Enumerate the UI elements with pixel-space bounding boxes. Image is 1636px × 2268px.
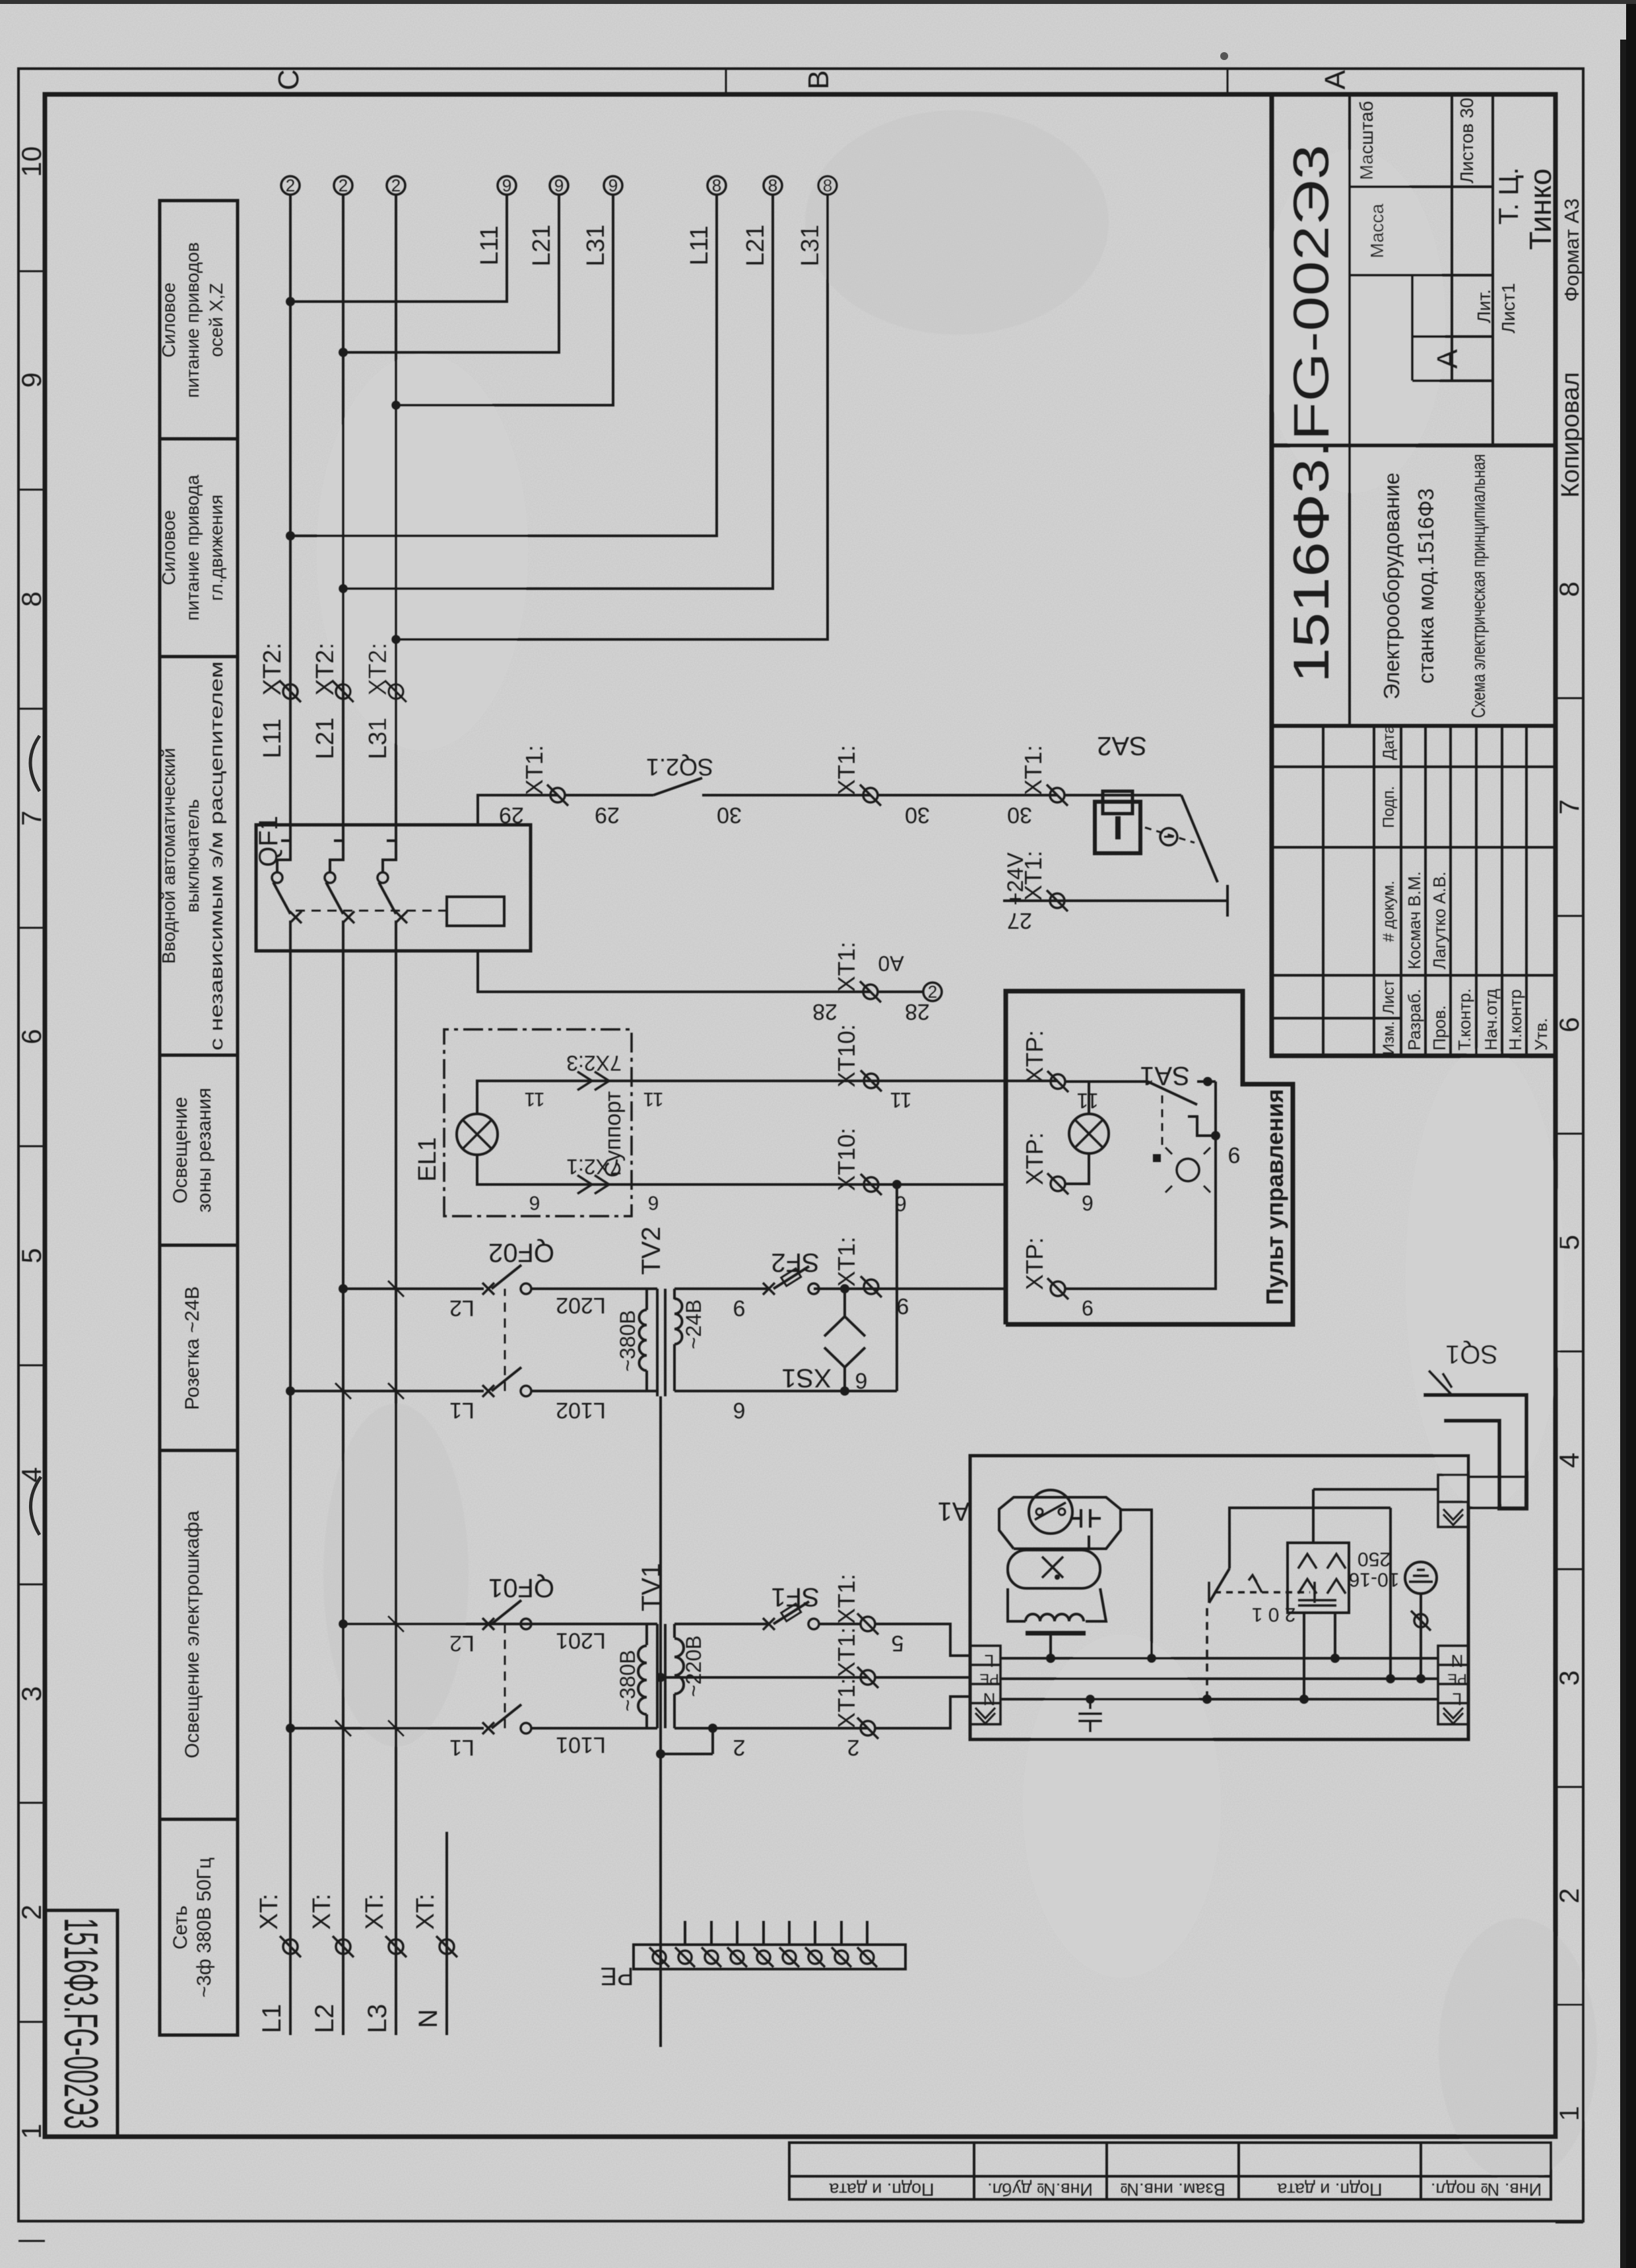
svg-text:5: 5 [892,1631,904,1656]
terminal XTP:9 [1047,1278,1068,1299]
svg-text:осей X,Z: осей X,Z [206,283,226,357]
wire socket PE [1313,1488,1438,1491]
switch SF1 [763,1618,775,1630]
svg-text:Листов 30: Листов 30 [1456,98,1477,183]
wire PE stub [788,1921,791,1945]
svg-text:Силовое: Силовое [158,282,179,358]
svg-text:2: 2 [847,1735,860,1760]
svg-text:XT1:: XT1: [833,745,860,795]
svg-text:9: 9 [897,1293,909,1318]
panel lamp HL [1069,1114,1109,1153]
svg-text:30: 30 [905,802,930,827]
svg-text:B: B [802,70,835,89]
sheet ref circle 9 L21 [550,176,568,195]
svg-text:8: 8 [16,591,47,606]
svg-text:Тинко: Тинко [1523,168,1557,249]
svg-text:9: 9 [1228,1142,1241,1167]
scan mark left upper [30,736,40,791]
svg-text:XT2:: XT2: [259,643,286,696]
svg-text:Утв.: Утв. [1531,1018,1551,1051]
svg-text:L2: L2 [449,1631,474,1656]
svg-text:Пульт управления: Пульт управления [1261,1089,1288,1305]
transformer TV1 core [656,1624,659,1728]
inventory margin strip cells [789,2143,1551,2199]
wire branch L11 axes [290,195,507,302]
svg-text:L2: L2 [310,2004,339,2034]
svg-text:А: А [1431,349,1464,369]
svg-text:# докум.: # докум. [1380,880,1398,942]
breaker QF1 box [256,825,531,951]
svg-text:L2: L2 [449,1295,474,1320]
PE bus bar [634,1945,905,1969]
node L2/QF01 junction [339,1619,348,1629]
switch SQ1 outline [1423,1395,1526,1508]
ground symbol A1 [1405,1562,1437,1594]
socket wires [1303,1613,1305,1699]
svg-text:XT1:: XT1: [833,942,860,992]
terminal XT: [280,1936,301,1957]
terminal XT1:29 [547,785,568,806]
svg-text:7X2:3: 7X2:3 [566,1051,622,1075]
svg-text:2: 2 [339,176,348,195]
svg-text:9: 9 [608,176,618,195]
svg-text:XT10:: XT10: [833,1024,860,1087]
dashed link SA2 [1145,827,1194,843]
scan speck [1220,52,1228,60]
svg-text:9: 9 [502,176,511,195]
terminal XT1:30b [1047,785,1068,806]
svg-text:Разраб.: Разраб. [1404,988,1424,1051]
breaker QF01 pole L2 [343,1623,484,1625]
wire 28 end [878,990,923,993]
svg-text:3: 3 [16,1686,47,1701]
node L1/QF01 junction [286,1724,295,1733]
wire branch L31 axes [396,195,613,405]
svg-text:10-16: 10-16 [1349,1569,1400,1590]
breaker QF1 pole 2 [342,921,344,951]
wire branch L31 main [396,195,828,639]
svg-text:питание привода: питание привода [182,474,203,621]
node branch L31 axes [391,401,401,410]
connector 7X2:3 [577,1072,609,1090]
svg-text:Освещение: Освещение [170,1097,191,1204]
svg-text:2: 2 [16,1904,47,1920]
svg-text:L1: L1 [449,1735,474,1760]
svg-text:Дата: Дата [1380,725,1398,760]
terminal PE bus [649,1947,669,1967]
sheet ref circle 2 L11 [281,176,300,195]
svg-text:9: 9 [554,176,564,195]
breaker QF1 pole 1 [289,921,292,951]
wire 11 lamp [477,1081,1058,1114]
terminal XT1:5 [857,1613,878,1635]
sheet ref circle 9 L31 [604,176,622,195]
svg-text:11: 11 [890,1088,911,1112]
A1 bottom arrows [1443,1708,1463,1724]
node branch L11 main [286,531,295,540]
transformer TV2 primary winding [647,1390,657,1392]
svg-text:XT1:: XT1: [833,1678,860,1728]
wire TV2 sec bottom [674,1390,897,1392]
svg-text:Подп. и дата: Подп. и дата [1276,2180,1382,2199]
transformer TV2 core [656,1289,659,1396]
sheet ref circle 8 L31 [818,176,837,195]
terminal XT2: L11 [280,681,301,702]
zone ticks top margin [18,271,45,2241]
svg-text:QF01: QF01 [488,1573,554,1602]
sheet ref circle 2 wire28 [923,983,942,1001]
svg-text:Формат А3: Формат А3 [1560,199,1583,302]
svg-text:5: 5 [16,1248,47,1263]
svg-text:Вводной автоматический: Вводной автоматический [158,748,179,963]
svg-text:Копировал: Копировал [1557,372,1585,498]
node L1/QF02 junction [286,1386,295,1396]
svg-text:2 0 1: 2 0 1 [1252,1604,1296,1625]
svg-text:TV2: TV2 [637,1227,666,1275]
starter capacitor [1072,1509,1101,1528]
wire PE stub [762,1921,765,1945]
terminal XT: [385,1936,407,1957]
QF02 trip link dashed [504,1289,506,1391]
A1 column L [1000,1657,1438,1660]
wire 27 [1003,899,1227,902]
wire QF01 L1 drop [290,1727,484,1730]
breaker QF02 pole L2 [482,1283,494,1295]
svg-text:Лагутко А.В.: Лагутко А.В. [1429,872,1449,969]
terminal XT2: L21 [333,681,354,702]
terminal ground A1 [1411,1611,1431,1631]
svg-text:L202: L202 [556,1293,606,1318]
paper blotches [317,150,1564,1978]
svg-text:~3ф 380В 50Гц: ~3ф 380В 50Гц [193,1858,215,1997]
svg-text:6: 6 [895,1192,907,1215]
svg-text:XT:: XT: [361,1894,389,1930]
svg-text:Инв.№ дубл.: Инв.№ дубл. [987,2180,1093,2199]
wire TV1 secondary 5 [674,1623,769,1625]
title left header row [1380,725,1398,1055]
svg-text:гл.движения: гл.движения [206,494,226,600]
svg-text:5: 5 [1554,1235,1585,1250]
transformer TV1 primary winding [647,1727,657,1730]
control panel box [1006,991,1293,1324]
switch SA1 contact 2 dashed lamp [1162,1094,1163,1145]
svg-text:Лист1: Лист1 [1498,283,1519,333]
svg-text:QF02: QF02 [488,1238,554,1267]
breaker QF1 pole 3 [395,921,397,951]
svg-text:A1: A1 [938,1497,970,1526]
svg-text:N: N [414,2009,443,2028]
switch SQ2.1 [653,778,702,795]
svg-text:Розетка ~24В: Розетка ~24В [181,1286,203,1410]
terminal XT1:9 [861,1276,882,1297]
svg-text:L31: L31 [582,224,610,266]
wire branch L11 main [290,195,717,536]
svg-text:~24В: ~24В [682,1299,705,1349]
svg-text:11: 11 [643,1088,663,1110]
wire TV1 secondary 2 [674,1727,868,1730]
svg-text:9: 9 [1082,1296,1094,1320]
svg-text:XT2:: XT2: [311,643,339,696]
svg-text:Лит.: Лит. [1474,289,1494,323]
terminal PE bus [754,1947,773,1967]
svg-text:6: 6 [648,1192,659,1214]
svg-text:9: 9 [16,372,47,387]
node A1 L col [1046,1654,1055,1663]
wire bus L1 [289,951,292,2035]
svg-text:1516Ф3.FG-002Э3: 1516Ф3.FG-002Э3 [1284,145,1340,683]
wire 6 lamp [477,1155,1006,1184]
svg-text:6: 6 [1082,1191,1094,1215]
node branch L11 axes [286,297,295,306]
scan mark left lower [30,1477,41,1535]
switch SA2 blade [1181,795,1218,882]
wire QF02 L2 drop [343,1287,484,1290]
zone numbers top margin [16,146,47,2139]
wire TV2 sec top [674,1287,769,1290]
svg-text:27: 27 [1007,908,1032,933]
terminal PE bus [832,1947,851,1967]
svg-text:Схема электрическая принципиал: Схема электрическая принципиальная [1468,454,1489,718]
svg-text:~380В: ~380В [616,1310,639,1371]
zone numbers bottom margin [1554,581,1585,2121]
wire bus L3 [395,951,397,2035]
wire PE stub [814,1921,816,1945]
svg-text:XT:: XT: [412,1894,440,1930]
svg-text:L31: L31 [364,717,392,759]
svg-text:SA1: SA1 [1140,1061,1190,1090]
QF1 trip bar dashed [296,910,447,912]
svg-text:Сеть: Сеть [170,1906,191,1950]
svg-text:9: 9 [733,1295,746,1320]
wire PE to switch [1389,1508,1392,1679]
svg-text:L102: L102 [556,1398,606,1423]
svg-text:6: 6 [16,1029,47,1044]
ground link TV1 secondary [711,1728,714,1754]
svg-text:L3: L3 [363,2004,392,2034]
zone letters right margin [273,69,1352,90]
terminal XT1:28 [860,981,881,1002]
svg-text:6: 6 [855,1368,868,1393]
zone ticks bottom margin [1555,698,1583,2222]
connector 7X2:1 [577,1175,609,1194]
svg-text:L31: L31 [797,224,824,266]
svg-text:1516Ф3.FG-002Э3: 1516Ф3.FG-002Э3 [54,1918,107,2129]
svg-text:1: 1 [16,2123,47,2139]
svg-text:SQ1: SQ1 [1445,1340,1498,1369]
terminal XT10:11 [861,1070,882,1091]
ground line PE [659,1396,662,2047]
terminal XT1:2 [857,1718,878,1739]
svg-text:Силовое: Силовое [158,510,179,585]
svg-text:Взам. инв.№: Взам. инв.№ [1120,2180,1226,2199]
A1 bottom terminal block [1438,1646,1468,1724]
svg-text:PE: PE [601,1962,634,1990]
function header table [160,201,238,2035]
svg-text:Н.контр: Н.контр [1505,989,1525,1051]
svg-text:XT1:: XT1: [1020,745,1047,795]
svg-text:XTP:: XTP: [1021,1030,1048,1083]
svg-text:Т.контр.: Т.контр. [1455,988,1474,1051]
svg-text:XT1:: XT1: [833,1574,860,1624]
svg-text:6: 6 [733,1398,746,1423]
svg-text:L21: L21 [528,224,556,266]
svg-text:SA2: SA2 [1097,731,1147,760]
svg-text:4: 4 [16,1467,47,1482]
svg-text:4: 4 [1554,1452,1585,1468]
breaker QF02 pole L1 [482,1385,494,1397]
wire PE stub [736,1921,738,1945]
svg-text:250: 250 [1358,1548,1391,1570]
unit A1 box [970,1456,1468,1739]
wire 29-30 [565,794,653,796]
svg-text:Пров.: Пров. [1429,1005,1449,1051]
terminal XT2: L31 [385,681,407,702]
wire bus N [445,1832,448,2035]
switch 201 blade [1209,1569,1229,1603]
switch SQ1 blade [1429,1371,1452,1395]
doc number box top-left (rotated 180) [45,1910,117,2137]
wire PE from ground line [661,1676,868,1679]
svg-text:Освещение электрошкафа: Освещение электрошкафа [181,1510,203,1759]
wire 29 from QF1 [478,795,558,825]
node branch L21 main [339,584,348,593]
terminal PE bus [857,1947,877,1967]
svg-text:L21: L21 [311,717,339,759]
terminal PE bus [779,1947,799,1967]
sheet ref circle 8 L11 [707,176,726,195]
A1 top terminal block [970,1646,1000,1724]
node branch L31 main [391,635,401,644]
svg-text:11: 11 [524,1088,544,1110]
fluorescent lamp [1008,1550,1100,1588]
node branch L21 axes [339,348,348,357]
svg-text:7X2:1: 7X2:1 [566,1155,622,1179]
socket XS1 [840,1284,849,1293]
svg-text:A: A [1319,70,1352,90]
A1 column PE [1000,1677,1438,1680]
svg-text:L11: L11 [686,226,713,266]
lamp EL1 [457,1114,498,1155]
wire 28 from QF1 [478,951,870,992]
svg-text:SF2: SF2 [771,1248,819,1277]
svg-text:Нач.отд: Нач.отд [1481,988,1501,1051]
zone letter ticks right margin [726,69,1227,94]
wires A1 to SQ1 [1468,1475,1526,1478]
svg-text:6: 6 [1554,1017,1585,1032]
svg-text:L11: L11 [476,226,504,266]
svg-text:EL1: EL1 [414,1137,442,1182]
svg-text:Космач В.М.: Космач В.М. [1404,871,1424,969]
svg-text:зоны резания: зоны резания [193,1087,215,1212]
terminal XTP:6 [1047,1173,1068,1194]
svg-text:8: 8 [712,176,721,195]
svg-text:L1: L1 [449,1398,474,1423]
wires XT1 to A1 [875,1624,970,1656]
terminal XT1:27 [1047,890,1068,911]
svg-text:8: 8 [768,176,777,195]
svg-text:Инв. № подл.: Инв. № подл. [1431,2180,1542,2199]
svg-text:Т. Ц.: Т. Ц. [1493,167,1524,224]
svg-text:2: 2 [1554,1888,1585,1903]
scan dark edge top [0,0,1636,4]
svg-text:2: 2 [286,176,295,195]
svg-text:А0: А0 [878,952,903,975]
svg-text:~380В: ~380В [616,1650,639,1711]
svg-text:7: 7 [16,810,47,826]
capacitor A1 N suppression [1089,1699,1092,1709]
svg-text:SQ2.1: SQ2.1 [646,754,713,781]
wire link 6 [896,1184,898,1391]
svg-text:XTP:: XTP: [1021,1237,1048,1290]
svg-text:6: 6 [529,1192,540,1214]
socket box A1 [1288,1543,1349,1613]
svg-text:PE: PE [1447,1671,1466,1687]
svg-text:выключатель: выключатель [182,799,203,913]
svg-text:L: L [985,1651,994,1671]
svg-text:XS1: XS1 [781,1363,832,1392]
wire 30 to SA2 [1064,794,1181,796]
svg-text:Масса: Масса [1367,203,1387,258]
svg-text:XTP:: XTP: [1021,1132,1048,1185]
terminal PE bus [702,1947,721,1967]
svg-text:L101: L101 [556,1732,606,1757]
svg-text:с независимым э/м расцепителем: с независимым э/м расцепителем [206,661,226,1051]
svg-text:N: N [983,1689,996,1709]
wire PE stub [710,1921,713,1945]
wire PE stub [840,1921,843,1945]
svg-text:3: 3 [1554,1670,1585,1685]
A1 exit connector [1438,1475,1468,1527]
svg-text:30: 30 [717,802,742,827]
svg-text:L201: L201 [556,1628,606,1653]
svg-text:питание приводов: питание приводов [182,242,203,398]
wire bus L2 [342,951,344,2035]
terminal XT1:30 [860,785,881,806]
svg-text:Подп.: Подп. [1380,786,1398,828]
svg-text:XT:: XT: [308,1894,336,1930]
transformer TV1 secondary winding [673,1694,676,1728]
starter housing [999,1497,1121,1549]
svg-text:2: 2 [391,176,401,195]
wire QF02 L1 drop [290,1390,484,1392]
wire PE stub [684,1921,686,1945]
ballast choke [1026,1614,1084,1621]
terminal PE bus [805,1947,825,1967]
svg-text:Подп. и дата: Подп. и дата [828,2180,934,2199]
terminal XTP:11 [1047,1071,1068,1092]
terminal XT10:6 [861,1174,882,1195]
A1 top arrows [975,1708,995,1724]
svg-text:N: N [1451,1651,1464,1671]
svg-text:7: 7 [1554,799,1585,814]
node L2/QF02 junction [339,1284,348,1293]
QF01 trip link dashed [504,1624,506,1728]
svg-text:29: 29 [595,802,620,827]
svg-text:XT1:: XT1: [833,1237,860,1287]
sheet ref circle 2 L31 [387,176,405,195]
svg-text:Лист: Лист [1380,980,1398,1014]
transformer TV2 secondary winding [673,1344,676,1391]
wire QF01 L2 drop [343,1623,657,1625]
sheet ref circle 2 L21 [334,176,352,195]
door switch 201 dashed [1206,1607,1208,1699]
terminal XT1:PE [857,1667,878,1688]
wire 6 inside panel [1065,1136,1216,1289]
wire lamp to XTP9 [1065,1153,1089,1184]
key circle SA2 [1160,828,1177,845]
sheet ref circle 8 L21 [764,176,782,195]
svg-text:XT10:: XT10: [833,1128,860,1191]
